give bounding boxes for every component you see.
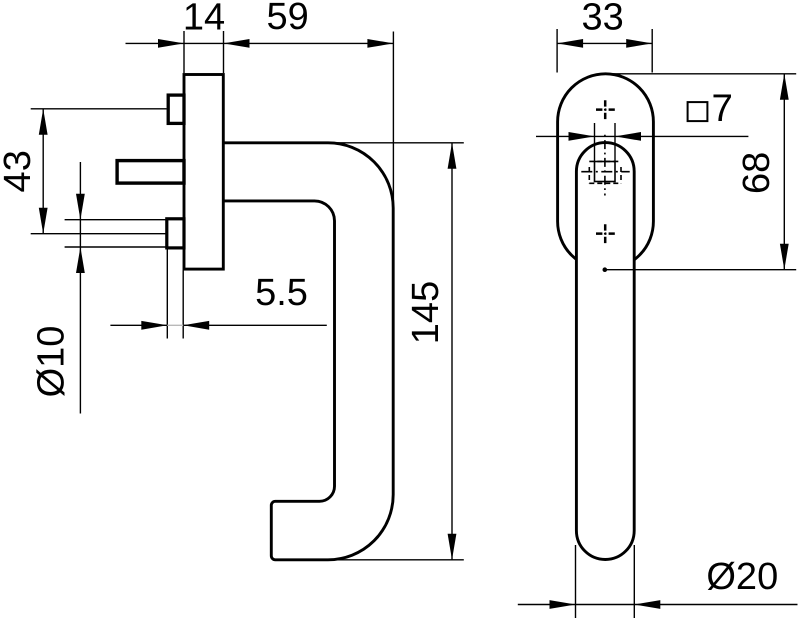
rosette stadium (front view) <box>558 74 654 269</box>
dimension 59 extension line right <box>392 32 394 202</box>
dimension D10 arrow up <box>76 247 85 273</box>
dimension 145 arrow down <box>448 534 457 560</box>
dimension square7 symbol <box>688 102 708 121</box>
dimension 43 arrow up <box>39 109 48 135</box>
dimension 145 arrow up <box>448 143 457 169</box>
dimension 33 arrow right <box>626 39 652 48</box>
dimension square7 arrow left <box>569 132 595 141</box>
dimension 43 bottom extension line <box>31 233 167 235</box>
dimension 68 origin dot <box>603 267 608 272</box>
spindle (square shaft, side view) <box>117 161 184 184</box>
dimension 14/59 shared arrow <box>224 39 250 48</box>
dimension D10 line <box>79 162 81 414</box>
dimension square7 arrow right <box>615 132 641 141</box>
dimension 59 arrow right <box>367 39 393 48</box>
top screw-head square <box>168 95 184 123</box>
dimension D10 extension line top <box>65 219 167 221</box>
dimension 5.5 arrow right <box>183 321 209 330</box>
dimension D20 line <box>518 604 798 606</box>
dimension D20 arrow right <box>634 600 660 609</box>
dimension D20 arrow left <box>550 600 576 609</box>
dimension 5.5 extension line left <box>166 250 168 339</box>
dimension 14 extension line right <box>223 31 225 73</box>
dimension 14 arrow left <box>158 39 184 48</box>
dimension D20 extension line left <box>575 545 577 618</box>
dimension 68 bottom extension line <box>604 269 796 271</box>
dimension D10 extension line bottom <box>65 246 167 248</box>
svg-text:145: 145 <box>405 281 447 344</box>
dimension 145 line <box>451 143 453 560</box>
handle lever outline (side view) <box>223 143 393 560</box>
spindle hole square (solid) <box>595 162 616 182</box>
svg-text:7: 7 <box>712 87 733 130</box>
dimension 5.5 faint middle <box>167 324 183 326</box>
centre line horizontal (dash-dot) <box>581 171 629 173</box>
dimension 68 arrow up <box>780 74 789 100</box>
centre line vertical (dash-dot) <box>604 135 606 196</box>
svg-text:Ø10: Ø10 <box>31 326 73 398</box>
dimension square7 extension line right <box>614 123 616 161</box>
dimension 43 line <box>42 109 44 234</box>
dimension 43 top extension line <box>31 108 167 110</box>
dimension D20 extension line right <box>633 545 635 618</box>
dimension square7 line <box>536 135 748 137</box>
dimension 145 top extension line <box>330 142 464 144</box>
dimension 33 line <box>557 42 652 44</box>
dimension 68 top extension line <box>610 73 796 75</box>
dimension 33 extension line right <box>651 29 653 73</box>
dimension square7 extension line left <box>594 123 596 161</box>
dimension 43 arrow down <box>39 208 48 234</box>
dimension 145 bottom extension line <box>330 559 464 561</box>
top screw hole centre mark <box>596 100 615 119</box>
spindle square hidden (dashed) <box>589 161 621 183</box>
dimension 33 extension line left <box>556 29 558 73</box>
dimension 59 line <box>224 42 394 44</box>
dimension 5.5 arrow left <box>141 321 167 330</box>
dimension 14 line with leader <box>126 42 224 44</box>
dimension 33 arrow left <box>557 39 583 48</box>
dimension 68 arrow down <box>780 244 789 270</box>
rosette plate (side view) <box>184 75 223 270</box>
svg-text:68: 68 <box>736 152 778 194</box>
lower screw boss <box>167 219 184 248</box>
bottom screw hole centre mark <box>596 224 615 243</box>
handle grip (front view, covers rosette) <box>576 143 634 560</box>
svg-text:5.5: 5.5 <box>255 272 308 314</box>
dimension D10 arrow down <box>76 194 85 220</box>
dimension 68 line <box>783 74 785 270</box>
dimension 14 extension line left <box>183 31 185 73</box>
svg-text:14: 14 <box>183 0 225 39</box>
dimension 5.5 extension line right <box>182 271 184 339</box>
svg-text:43: 43 <box>0 150 39 192</box>
svg-text:Ø20: Ø20 <box>706 556 778 598</box>
dimension 5.5 line <box>110 324 326 326</box>
svg-text:59: 59 <box>266 0 308 38</box>
svg-text:33: 33 <box>582 0 624 39</box>
